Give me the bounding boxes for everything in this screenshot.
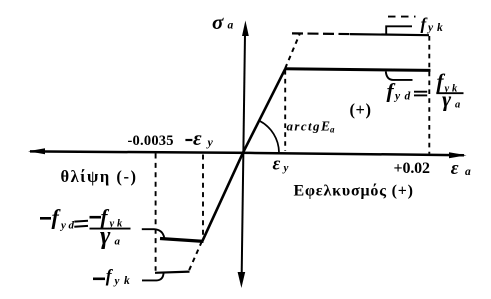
svg-text:y: y — [113, 275, 120, 287]
svg-text:γ: γ — [100, 223, 111, 250]
dashed vertical at +epsilon-y — [284, 70, 286, 151]
dashed hardening segment (positive) — [285, 34, 299, 68]
svg-text:a: a — [455, 100, 460, 111]
svg-text:f: f — [52, 205, 62, 230]
svg-text:k: k — [437, 22, 443, 34]
svg-text:a: a — [330, 125, 335, 135]
label sigma-a (top) — [212, 10, 234, 34]
svg-text:k: k — [124, 275, 130, 287]
-fyd plateau line — [160, 239, 204, 242]
svg-text:a: a — [228, 20, 234, 32]
svg-text:y: y — [426, 22, 434, 34]
svg-text:σ: σ — [212, 10, 224, 34]
svg-text:γ: γ — [442, 87, 452, 112]
label fyd = — [387, 78, 428, 102]
label epsilon-a (axis name) — [451, 158, 471, 179]
svg-text:y: y — [282, 162, 289, 174]
fyk leader bracket — [386, 17, 415, 35]
-fyd leader — [142, 229, 165, 238]
fyd plateau line — [285, 69, 431, 71]
svg-text:d: d — [69, 219, 75, 231]
svg-text:θλίψη (-): θλίψη (-) — [61, 167, 137, 186]
fyd leader hook — [386, 72, 413, 80]
svg-text:arctg: arctg — [287, 119, 321, 134]
svg-text:ε: ε — [273, 153, 281, 174]
label arctg Ea — [287, 119, 336, 135]
fraction fyk over gamma-a — [436, 69, 463, 112]
svg-text:+0.02: +0.02 — [394, 160, 431, 177]
svg-text:f: f — [106, 266, 114, 286]
y-axis (stress axis) — [238, 21, 249, 289]
svg-text:Εφελκυσμός (+): Εφελκυσμός (+) — [294, 183, 414, 200]
-fyk leader — [142, 273, 164, 281]
angle arc — [260, 121, 279, 152]
svg-text:ε: ε — [451, 158, 459, 179]
svg-text:E: E — [320, 119, 330, 134]
svg-text:y: y — [393, 91, 401, 103]
dashed hardening segment (negative) — [189, 242, 202, 271]
svg-text:(+): (+) — [350, 100, 372, 119]
svg-text:ε: ε — [193, 126, 202, 150]
dashed vertical at -0.0035 — [155, 154, 157, 271]
-fyk plateau line — [155, 272, 190, 273]
x-axis (strain axis) — [28, 148, 467, 158]
svg-text:d: d — [405, 91, 411, 103]
label epsilon-y (below axis) — [273, 153, 289, 174]
label fyk (top right) — [421, 15, 444, 34]
svg-text:y: y — [206, 135, 214, 149]
formula -fyd = -fyk/gamma-a — [40, 205, 131, 250]
svg-text:y: y — [59, 219, 66, 231]
fyk level line — [292, 33, 429, 35]
svg-text:a: a — [115, 236, 121, 248]
dashed vertical at -epsilon-y — [202, 155, 204, 238]
svg-text:a: a — [465, 166, 471, 178]
dashed vertical at +0.02 — [428, 36, 430, 154]
label -epsilon-y (left of axis) — [185, 126, 213, 150]
label -fyk — [93, 266, 130, 288]
svg-text:-0.0035: -0.0035 — [128, 133, 174, 149]
elastic slope line — [203, 69, 286, 241]
